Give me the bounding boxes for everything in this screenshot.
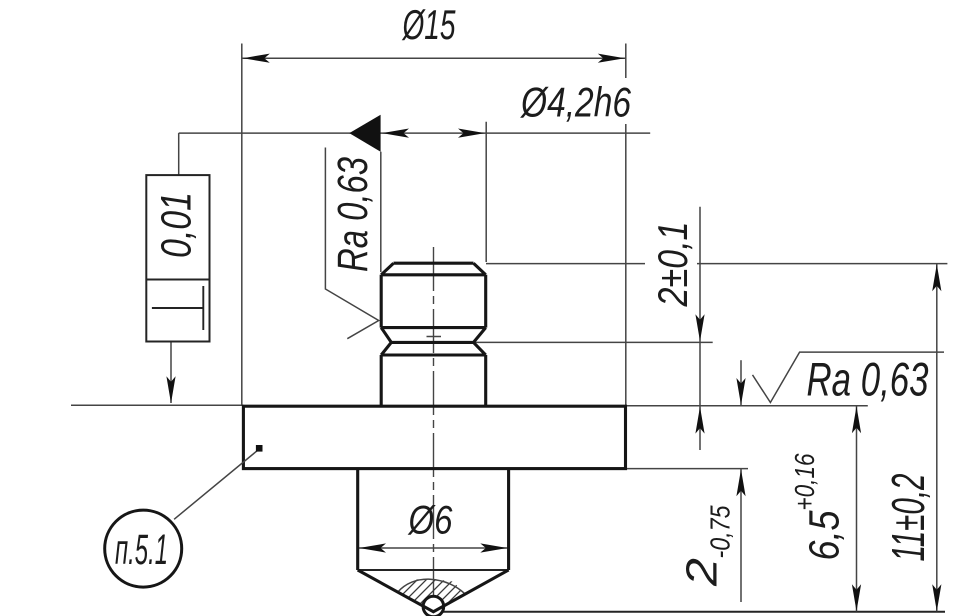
svg-text:2±0,1: 2±0,1 (649, 222, 696, 308)
svg-text:+0,16: +0,16 (789, 453, 820, 510)
svg-text:6,5: 6,5 (801, 510, 849, 561)
svg-text:Ra 0,63: Ra 0,63 (329, 157, 377, 272)
arrow 2-0,75 up (736, 469, 745, 496)
tolerance frame box (146, 175, 209, 341)
roughness symbol right (Ra 0,63) (753, 352, 945, 402)
dim line 11±0,2 (936, 264, 938, 612)
svg-text:0,01: 0,01 (153, 192, 201, 258)
svg-text:п.5.1: п.5.1 (115, 526, 168, 574)
centerline vertical (433, 247, 435, 616)
svg-text:11±0,2: 11±0,2 (882, 474, 934, 562)
tolerance frame leader bottom (170, 342, 172, 404)
ext line Ø4.2 right (485, 122, 487, 262)
black square marker on flange (256, 445, 263, 452)
plate bottom ext right (626, 468, 748, 470)
arrow 6,5 down (852, 584, 861, 611)
dim line Ø15 (242, 57, 626, 59)
arrow frame leader down (166, 376, 175, 403)
tolerance frame divider (146, 279, 209, 281)
flange outline (243, 406, 625, 468)
dim line 2-0,75 lower (740, 469, 742, 602)
arrow Ø4.2 left (382, 129, 409, 138)
hatching at cone tip (382, 570, 499, 615)
dim line 2-0,75 upper (740, 360, 742, 405)
tip sphere (423, 596, 444, 616)
leader to balloon (174, 450, 258, 519)
groove ext line (474, 341, 713, 343)
cap wavy boundary (398, 579, 466, 594)
balloon circle (105, 510, 182, 587)
ext line Ø4.2 left (380, 152, 382, 272)
arrow Ø4.2 right (458, 129, 485, 138)
datum triangle (349, 115, 380, 152)
ext line Ø15 left (241, 44, 243, 406)
roughness symbol left (Ra 0,63) (325, 148, 378, 339)
arrow Ø15 left (243, 54, 270, 63)
svg-text:-0,75: -0,75 (705, 505, 736, 558)
plate top ext right (626, 405, 868, 407)
dim line Ø6 (358, 547, 509, 549)
ext line Ø15 right (625, 44, 627, 407)
arrow Ø6 right (480, 543, 507, 552)
arrow 11±0,2 up (932, 264, 941, 291)
arrow 6,5 up (852, 406, 861, 433)
boss bottom edge (358, 569, 509, 571)
perpendicularity symbol (152, 286, 203, 330)
tolerance frame leader top (178, 133, 180, 175)
tip line bottom (433, 611, 945, 613)
arrow 2±0,1 up (695, 407, 704, 434)
arrow 2±0,1 down (695, 314, 704, 341)
arrow 11±0,2 down (932, 584, 941, 611)
arrow Ø15 right (598, 54, 625, 63)
mask under text Ø4,2h6 (518, 78, 632, 124)
arrow 2-0,75 down (736, 378, 745, 405)
pin top face ext line (486, 263, 947, 265)
dim line Ø4,2h6 with frame leader (179, 132, 651, 134)
pin outline (381, 263, 486, 406)
svg-text:Ø6: Ø6 (407, 499, 453, 543)
svg-text:Ra 0,63: Ra 0,63 (807, 353, 929, 406)
svg-text:2: 2 (678, 558, 727, 587)
boss outline (358, 469, 509, 570)
svg-text:Ø4,2h6: Ø4,2h6 (519, 79, 631, 126)
dim line 2±0,1 (699, 207, 701, 450)
mask under text 2±0,1 (645, 210, 697, 310)
arrow Ø6 left (359, 543, 386, 552)
dim line 6,5 (856, 406, 858, 612)
centerline tick at groove (427, 336, 442, 338)
plate top ext left (71, 404, 243, 406)
cone outline (358, 570, 509, 612)
svg-text:Ø15: Ø15 (401, 1, 456, 48)
